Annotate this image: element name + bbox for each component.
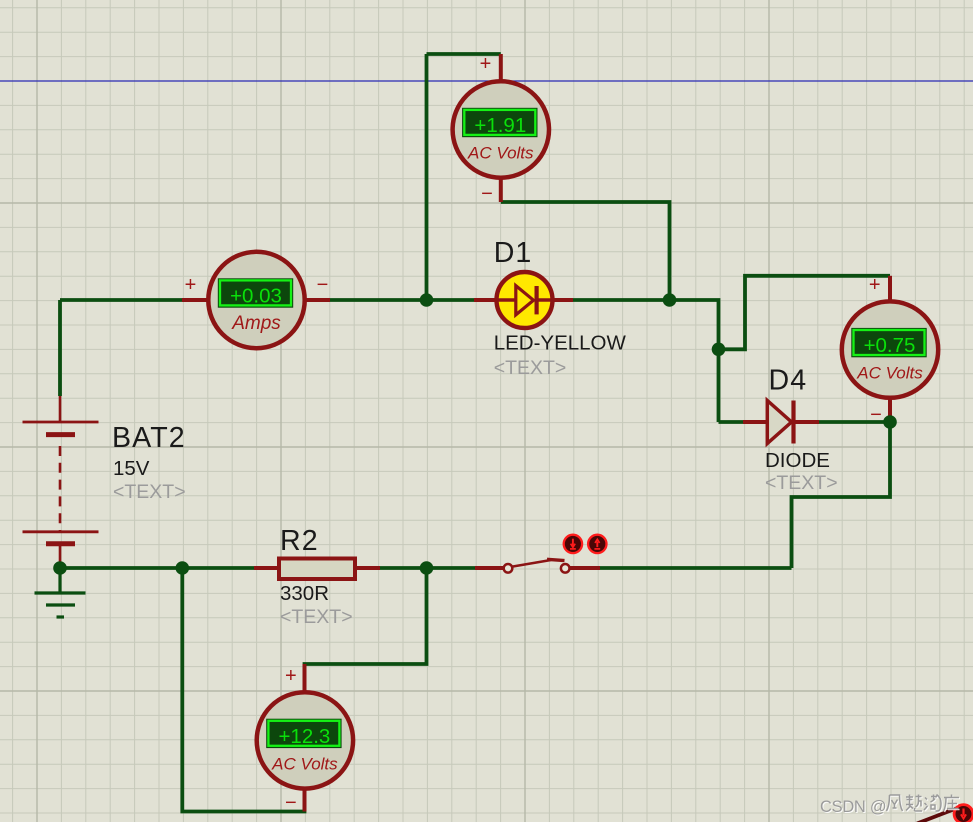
wire D4 cathode to node (819, 420, 890, 424)
pin VM2 + lead (303, 664, 307, 694)
pin VM2 - lead (303, 787, 307, 812)
node VM3- / D4 cathode junction (883, 415, 897, 429)
svg-text:+0.75: +0.75 (864, 334, 916, 357)
wire battery top to ammeter+ (60, 298, 182, 302)
node junction bottom rail left (176, 561, 190, 575)
wire VM1- down to node (501, 202, 670, 300)
wire LED cathode to right branch (554, 300, 719, 422)
sheet border (blue line) (0, 80, 973, 82)
wire to D4 anode (719, 420, 744, 424)
watermark CSDN (821, 799, 887, 817)
resistor R2 330R (254, 559, 380, 580)
node battery-ground junction (53, 561, 67, 575)
diode D4 (743, 401, 819, 444)
cut-off actuator button (954, 805, 973, 822)
pin ammeter + lead (182, 298, 208, 302)
svg-text:R2: R2 (280, 525, 319, 557)
voltmeter VM2 +12.3 AC Volts (257, 692, 353, 788)
svg-text:−: − (481, 183, 493, 205)
svg-text:<TEXT>: <TEXT> (765, 472, 838, 494)
svg-text:−: − (317, 274, 329, 296)
svg-text:+: + (869, 274, 881, 296)
led D1 LED-YELLOW (495, 272, 553, 328)
voltmeter VM3 +0.75 AC Volts (842, 301, 938, 397)
wire ammeter- to LED (329, 298, 474, 302)
wire left vertical of VM1 loop (425, 54, 429, 300)
pin VM3 + lead (888, 276, 892, 304)
svg-text:+0.03: +0.03 (230, 284, 282, 307)
pin LED cathode lead (552, 298, 573, 302)
svg-text:330R: 330R (280, 582, 329, 605)
battery BAT2 (23, 396, 99, 568)
svg-text:<TEXT>: <TEXT> (280, 606, 353, 628)
wire bottom rail right segment (599, 566, 792, 570)
switch actuator button down (564, 535, 582, 553)
svg-text:AC Volts: AC Volts (271, 754, 338, 773)
svg-text:+: + (480, 53, 492, 75)
svg-text:<TEXT>: <TEXT> (494, 357, 567, 379)
svg-text:BAT2: BAT2 (112, 422, 186, 454)
node junction right branch (712, 343, 726, 357)
svg-text:AC Volts: AC Volts (467, 144, 534, 163)
svg-text:−: − (285, 792, 297, 814)
svg-text:+1.91: +1.91 (474, 114, 526, 137)
pin VM1 - lead (499, 176, 503, 202)
svg-text:−: − (870, 404, 882, 426)
node junction bottom rail right of R2 (420, 561, 434, 575)
cut-off component lever (bottom right) (917, 809, 956, 822)
svg-text:15V: 15V (113, 457, 150, 480)
node wire junction right of LED (663, 293, 677, 307)
wire node to VM3+ (719, 276, 891, 350)
wire node to VM2+ (305, 568, 427, 692)
svg-text:LED-YELLOW: LED-YELLOW (494, 332, 627, 355)
wire VM3- node down to bottom rail (792, 422, 891, 568)
watermark glyph hong (925, 796, 942, 813)
pin LED anode lead (474, 298, 497, 302)
wire bottom rail left segment (60, 566, 475, 570)
svg-text:D4: D4 (769, 365, 808, 397)
pin VM1 + lead (499, 54, 503, 83)
svg-text:D1: D1 (494, 237, 533, 269)
ammeter +0.03 Amps (208, 252, 304, 348)
watermark glyph zhuang (945, 796, 961, 813)
svg-text:+: + (185, 274, 197, 296)
svg-text:DIODE: DIODE (765, 449, 830, 472)
ground (35, 568, 86, 617)
pin VM3 - lead (888, 396, 892, 422)
watermark glyph qi (907, 796, 923, 813)
svg-text:<TEXT>: <TEXT> (113, 481, 186, 503)
svg-text:CSDN @: CSDN @ (820, 798, 886, 816)
svg-text:+: + (285, 665, 297, 687)
wire node to VM2- (182, 568, 304, 812)
svg-text:+12.3: +12.3 (278, 725, 330, 748)
wire down to battery (58, 300, 62, 396)
wire top loop to VM1+ (427, 52, 501, 56)
watermark glyph feng (888, 796, 904, 812)
pin ammeter - lead (305, 298, 330, 302)
voltmeter VM1 +1.91 AC Volts (453, 81, 549, 177)
svg-text:AC Volts: AC Volts (856, 364, 923, 383)
switch (open) (475, 559, 600, 572)
svg-text:Amps: Amps (231, 313, 281, 334)
switch actuator button up (588, 535, 606, 553)
node wire junction left of LED (420, 293, 434, 307)
